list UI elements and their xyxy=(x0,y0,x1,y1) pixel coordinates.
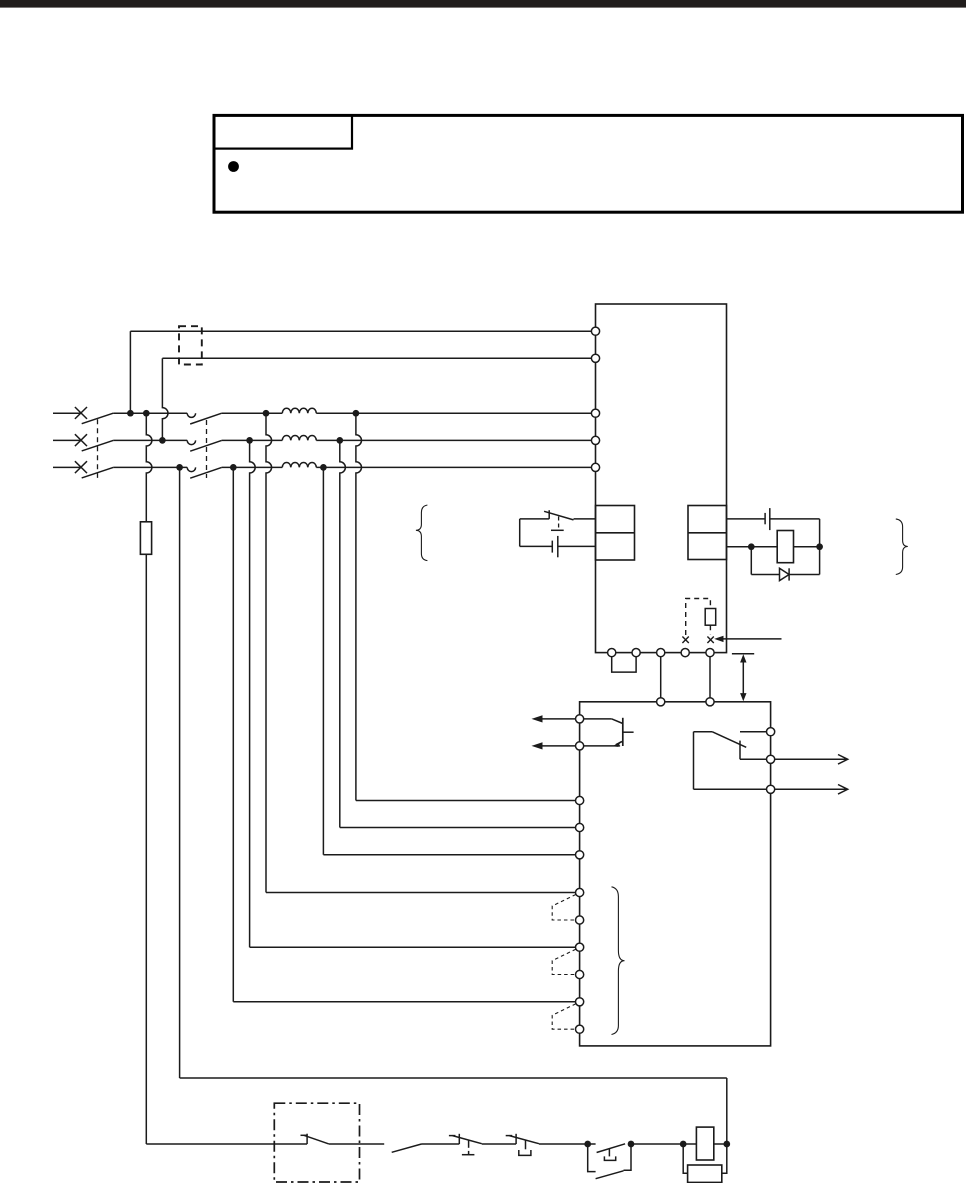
wire to terminal S3 xyxy=(233,1001,575,1003)
fuse mark X phase T xyxy=(75,461,87,473)
wire T-branch horizontal run xyxy=(180,1077,727,1079)
wire FLB out xyxy=(775,758,848,760)
wire phase R MC-to-reactor xyxy=(222,412,283,414)
reactor coil L phase T xyxy=(282,462,316,467)
MC fixed-contact hook pole S xyxy=(187,440,195,444)
measure bar xyxy=(732,653,754,655)
wire FM output xyxy=(541,718,576,720)
inverter internal block right xyxy=(688,506,727,560)
MC blade pole R xyxy=(190,413,222,424)
terminal S1 xyxy=(576,888,584,896)
wire FLA out xyxy=(775,788,848,790)
wire diode branch xyxy=(789,574,820,576)
capacitor plate short xyxy=(764,513,766,524)
terminal CC2 xyxy=(576,970,584,978)
wire to inverter xyxy=(558,545,596,547)
terminal FLA xyxy=(767,785,775,793)
wire tap R(MC side) down (hops S,T) xyxy=(266,413,272,892)
wire S0 control supply horizontal xyxy=(162,357,591,359)
junction phase R after reactor xyxy=(353,410,360,417)
contact blade xyxy=(544,511,573,520)
junction phase T before reactor xyxy=(230,464,237,471)
terminal VIA xyxy=(576,796,584,804)
terminal FM xyxy=(576,715,584,723)
relay changeover contact FL xyxy=(740,731,767,733)
wire to terminal S1 xyxy=(266,892,576,894)
junction R0/phase R xyxy=(127,410,134,417)
terminal PO xyxy=(681,649,689,657)
MCCB blade pole T xyxy=(82,467,114,478)
wire xyxy=(683,1143,696,1145)
fuse F on control branch xyxy=(140,522,151,555)
wire xyxy=(329,1143,384,1145)
wire fuse branch upper (hops S,T) xyxy=(146,413,152,522)
wire xyxy=(422,1143,460,1145)
terminal CC3 xyxy=(576,1025,584,1033)
terminal FLC xyxy=(767,728,775,736)
MC fixed-contact hook pole R xyxy=(187,413,195,417)
wire tap T(MC side) down xyxy=(232,467,234,1001)
arrowhead FM (left filled) xyxy=(532,715,543,722)
top black page header bar xyxy=(0,0,966,8)
wire diode branch left xyxy=(750,547,752,575)
junction phase T tap (control branch) xyxy=(176,464,183,471)
wire to inverter xyxy=(574,518,596,520)
note box title tab xyxy=(214,115,352,148)
MC coil xyxy=(696,1127,713,1160)
terminal T/L3 xyxy=(591,463,599,471)
wire R0 vertical drop xyxy=(129,331,131,413)
wire right circuit middle xyxy=(727,546,778,548)
inverter internal block left xyxy=(596,506,635,561)
wire phase T MC-to-reactor xyxy=(222,466,283,468)
wire terminal5 down xyxy=(709,657,711,698)
junction phase S before reactor xyxy=(246,437,253,444)
junction MC coil left xyxy=(680,1141,687,1148)
wire phase S reactor-to-inverter xyxy=(316,439,591,441)
dashed jumper link lower xyxy=(709,625,711,634)
diode D1 cathode bar xyxy=(788,568,790,580)
wire MCCB out phase T xyxy=(113,466,187,468)
actuator T bar xyxy=(551,529,564,531)
note box frame xyxy=(214,115,963,212)
wire diode branch xyxy=(751,574,779,576)
wire xyxy=(714,1143,727,1145)
dashed actuator stem xyxy=(558,517,560,530)
wire R0 control supply horizontal xyxy=(130,330,591,332)
wire phase S supply lead xyxy=(53,439,81,441)
wire left circuit vertical xyxy=(519,519,521,547)
terminal R0 xyxy=(591,327,599,335)
terminal PC xyxy=(657,649,665,657)
open arrowhead FLB xyxy=(838,755,848,765)
wire left circuit top xyxy=(520,518,550,520)
left curly brace xyxy=(416,505,428,561)
terminal CC xyxy=(576,851,584,859)
contact tick xyxy=(548,510,550,519)
wire tap S(reactor side) down (hops T) xyxy=(340,440,346,827)
terminal S0 xyxy=(591,354,599,362)
junction phase R before reactor xyxy=(263,410,270,417)
NO start pushbutton xyxy=(588,1143,596,1145)
wire diode branch right xyxy=(819,547,821,575)
arrow line pointing to link xyxy=(718,638,782,640)
dashed jumper S-CC xyxy=(552,949,576,974)
emitter arrowhead xyxy=(613,741,621,747)
control terminal block outline xyxy=(580,702,771,1046)
divider left block xyxy=(596,532,635,534)
terminal S3 xyxy=(576,998,584,1006)
battery plate long xyxy=(557,536,559,557)
junction phase R tap (fuse branch) xyxy=(143,410,150,417)
wire tap T(reactor side) down xyxy=(322,467,324,854)
note bullet xyxy=(228,161,239,172)
arrowhead AM (left filled) xyxy=(532,742,543,749)
small resistor box in jumper xyxy=(705,609,716,626)
wire phase T reactor-to-inverter xyxy=(316,466,591,468)
wire down xyxy=(819,519,821,547)
MC fixed-contact hook pole T xyxy=(187,467,195,471)
wire to control terminal row2 xyxy=(340,827,576,829)
terminal R/L1 xyxy=(591,409,599,417)
wire tap S(MC side) down (hops T) xyxy=(250,440,256,947)
x mark link point 1 xyxy=(682,637,688,644)
MC blade pole S xyxy=(190,440,222,451)
x mark link point 2 xyxy=(707,637,713,644)
wire xyxy=(794,546,820,548)
terminal top B xyxy=(706,698,714,706)
terminal S/L2 xyxy=(591,436,599,444)
diode D1 triangle xyxy=(780,568,790,580)
NC pushbutton 2 xyxy=(515,1134,517,1144)
large right curly brace xyxy=(612,887,625,1035)
wire tap R(reactor side) down (hops S,T) xyxy=(356,413,362,800)
terminal VIB xyxy=(576,823,584,831)
surge absorber unit below MC coil xyxy=(683,1144,687,1173)
dashed jumper S-CC xyxy=(552,1004,576,1029)
double headed arrow (voltage measure) xyxy=(742,659,744,698)
junction phase T after reactor xyxy=(320,464,327,471)
junction phase S after reactor xyxy=(336,437,343,444)
terminal P+ xyxy=(706,649,714,657)
inverter U1 outline xyxy=(596,304,727,653)
relay coil RY xyxy=(777,531,793,563)
reactor coil L phase R xyxy=(282,408,316,413)
dash-dot box (external interlock) xyxy=(274,1103,359,1182)
wire phase T branch down xyxy=(179,467,181,1078)
terminal PA xyxy=(608,649,616,657)
fuse mark X phase S xyxy=(75,434,87,446)
wire phase T supply lead xyxy=(53,466,81,468)
terminal AM xyxy=(576,742,584,750)
wire fuse branch lower xyxy=(145,554,147,1144)
NO contact blade (aux) xyxy=(392,1144,422,1152)
junction S0/phase S xyxy=(159,437,166,444)
terminal top A xyxy=(657,698,665,706)
wire left circuit bottom xyxy=(520,545,552,547)
MCCB mechanical link (dashed) xyxy=(97,419,99,478)
wire MCCB out phase S xyxy=(113,439,187,441)
wire MCCB out phase R xyxy=(113,412,187,414)
wire right circuit top xyxy=(727,518,766,520)
wire phase R reactor-to-inverter xyxy=(316,412,591,414)
MC mechanical link (dashed) xyxy=(206,420,208,478)
NC pushbutton (stop) xyxy=(458,1134,460,1144)
divider right block xyxy=(688,532,727,534)
wire xyxy=(482,1143,516,1145)
dashed jumper S-CC xyxy=(552,895,576,921)
terminal CC1 xyxy=(576,916,584,924)
junction diode right xyxy=(816,543,823,550)
wire control circuit feed xyxy=(146,1143,307,1145)
junction start branch left xyxy=(584,1141,591,1148)
dashed option box on R0/S0 wires xyxy=(179,326,202,364)
battery plate short xyxy=(551,541,553,553)
NO contact inside dash-dot box xyxy=(306,1134,308,1144)
terminal PB xyxy=(632,649,640,657)
open arrowhead FLA xyxy=(838,785,848,795)
wire to terminal S2 xyxy=(250,946,576,948)
wire down to MC coil right xyxy=(726,1078,728,1144)
MCCB blade pole R xyxy=(82,413,114,424)
junction start branch right xyxy=(628,1141,635,1148)
dashed jumper link xyxy=(686,599,711,636)
transistor open-collector output xyxy=(584,718,612,720)
MC blade pole T xyxy=(190,467,222,478)
arrowhead (left filled) xyxy=(714,636,723,642)
wire to control terminal row3 xyxy=(323,854,575,856)
junction MC coil right xyxy=(723,1141,730,1148)
wire AM output xyxy=(541,745,576,747)
U-link between bottom terminals 1-2 xyxy=(612,657,636,672)
wire xyxy=(770,518,820,520)
MCCB blade pole S xyxy=(82,440,114,451)
terminal FLB xyxy=(767,755,775,763)
junction diode left xyxy=(748,543,755,550)
reactor coil L phase S xyxy=(282,436,316,441)
wire xyxy=(631,1143,683,1145)
wire terminal3 down xyxy=(660,657,662,698)
wire phase S MC-to-reactor xyxy=(222,439,283,441)
terminal S2 xyxy=(576,943,584,951)
MC auxiliary holding contact branch xyxy=(588,1144,596,1172)
wire S0 vertical drop (hops phase R) xyxy=(162,358,168,440)
wire to control terminal row1 xyxy=(356,800,576,802)
wire phase R supply lead xyxy=(53,412,81,414)
capacitor plate long xyxy=(769,508,771,530)
wire xyxy=(539,1143,588,1145)
right curly brace xyxy=(896,519,908,575)
fuse mark X phase R xyxy=(75,407,87,419)
